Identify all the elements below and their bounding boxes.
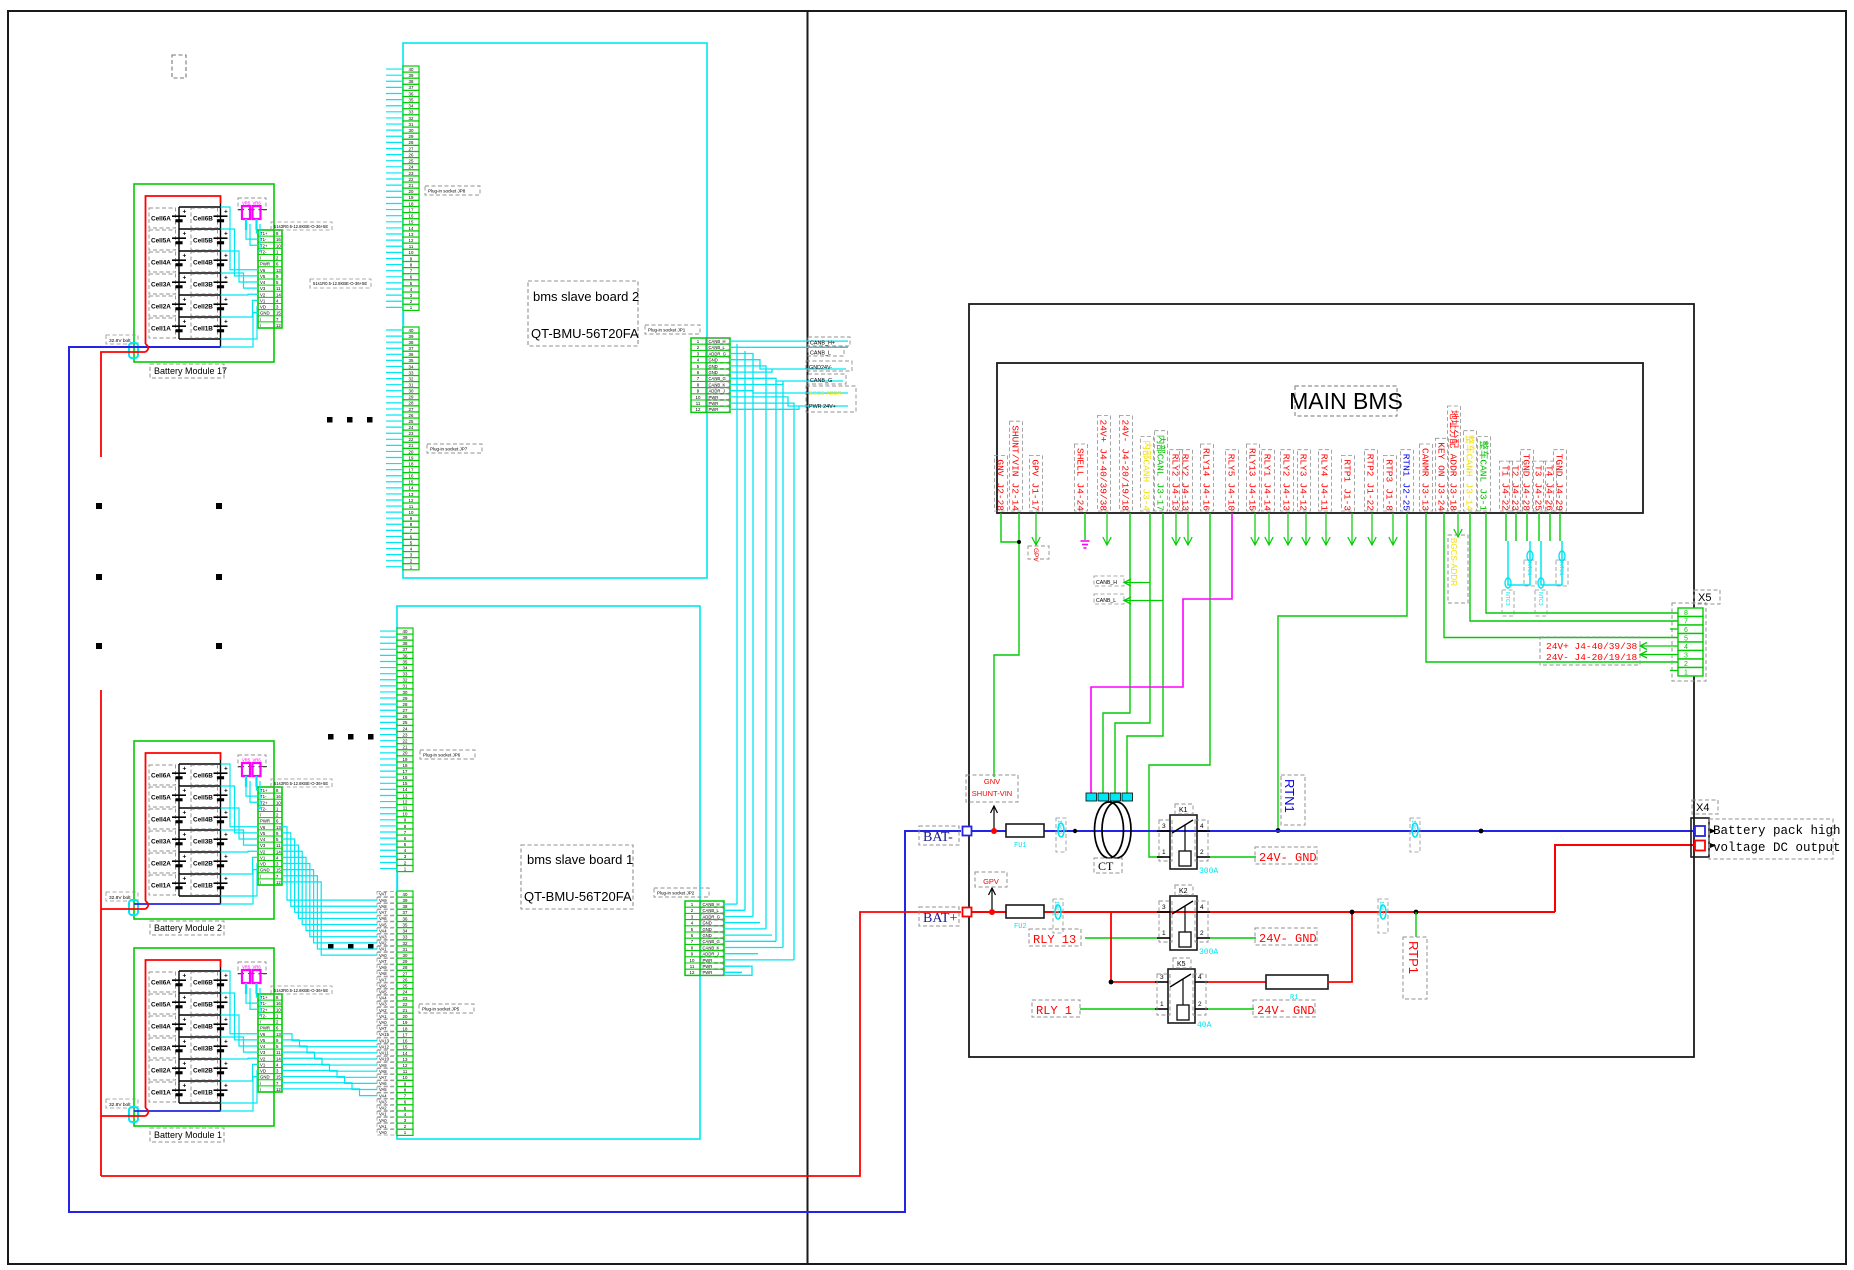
svg-text:TGND: TGND <box>1554 454 1565 477</box>
svg-text:33: 33 <box>403 672 408 677</box>
svg-text:Cell3A: Cell3A <box>151 1046 171 1053</box>
svg-text:VA1: VA1 <box>379 947 387 952</box>
wire K5 pin2 to 24V- GND <box>1208 1008 1254 1010</box>
svg-text:+: + <box>183 209 187 216</box>
ladder rung node Battery Module 2 r2 <box>179 807 221 809</box>
cell Cell5B (Battery Module 2) <box>191 787 218 807</box>
bms slave board 2 outline <box>403 43 707 578</box>
24V- GND label 1 <box>1255 847 1317 864</box>
svg-text:+: + <box>183 832 187 839</box>
svg-text:V6: V6 <box>260 1032 266 1037</box>
svg-text:T1+: T1+ <box>260 788 268 793</box>
wire RLY1 to K5 pin1 <box>1080 1008 1155 1010</box>
wire CANH drop to CT <box>1115 513 1150 793</box>
svg-text:J4-25: J4-25 <box>1533 483 1544 512</box>
svg-text:CANMR: CANMR <box>1420 448 1431 477</box>
svg-text:Plug-in socket JP5: Plug-in socket JP5 <box>422 1007 460 1012</box>
cell Cell4A (Battery Module 1) <box>149 1016 176 1036</box>
svg-text:VA2: VA2 <box>379 1008 387 1013</box>
battery module box Battery Module 17 <box>134 184 274 362</box>
svg-text:+: + <box>224 231 228 238</box>
ladder rung node Battery Module 1 r1 <box>179 992 221 994</box>
bms slave board 1 outline <box>397 606 700 1139</box>
ladder rung node Battery Module 2 r6 <box>179 895 221 897</box>
svg-text:11: 11 <box>276 843 281 848</box>
svg-text:T1+: T1+ <box>260 231 268 236</box>
battery module box Battery Module 2 <box>134 741 274 919</box>
svg-text:11: 11 <box>403 806 408 811</box>
svg-text:VA8: VA8 <box>379 1069 387 1074</box>
svg-text:RLY4: RLY4 <box>1319 454 1330 477</box>
drop arrow x1288 <box>1287 513 1289 545</box>
svg-text:1: 1 <box>1160 1001 1164 1008</box>
cell Cell2B (Battery Module 1) <box>191 1060 218 1080</box>
svg-text:VA5: VA5 <box>379 922 387 927</box>
shell ground symbol <box>1084 513 1086 540</box>
svg-text:CANB_G: CANB_G <box>709 376 726 381</box>
svg-text:PWR: PWR <box>703 970 713 975</box>
svg-text:24: 24 <box>409 165 414 170</box>
ladder rung node Battery Module 2 r0 <box>179 763 221 765</box>
cell Cell4B (Battery Module 17) <box>191 252 218 272</box>
wire red bottom bus to BAT+ <box>101 912 961 1176</box>
svg-text:24V- GND: 24V- GND <box>1259 851 1317 865</box>
svg-text:12: 12 <box>276 1087 281 1092</box>
svg-text:+: + <box>183 973 187 980</box>
svg-text:27: 27 <box>409 146 414 151</box>
svg-text:T2-: T2- <box>260 1013 267 1018</box>
relay K1 coil <box>1179 851 1191 866</box>
arrow X5 pin4 to 24V+ label <box>1640 645 1678 647</box>
svg-text:+: + <box>183 275 187 282</box>
svg-text:24V- J4-20/19/18: 24V- J4-20/19/18 <box>1546 652 1638 663</box>
svg-text:27: 27 <box>403 971 408 976</box>
svg-text:15: 15 <box>409 220 414 225</box>
svg-text:24V- GND: 24V- GND <box>1259 932 1317 946</box>
svg-text:24: 24 <box>403 726 408 731</box>
svg-text:VA6: VA6 <box>379 1081 387 1086</box>
svg-text:2: 2 <box>1200 849 1204 856</box>
svg-text:T2-: T2- <box>260 249 267 254</box>
svg-text:10: 10 <box>696 395 701 400</box>
svg-text:Cell6A: Cell6A <box>151 216 171 223</box>
cyan bus wires board2 connector to labels <box>730 340 848 342</box>
svg-text:T2-: T2- <box>260 806 267 811</box>
X4 connector <box>1691 818 1709 857</box>
svg-text:J3-4: J3-4 <box>1141 488 1152 511</box>
svg-text:V4: V4 <box>260 280 266 285</box>
battery module label (Battery Module 1) <box>150 1128 224 1142</box>
svg-text:16: 16 <box>276 237 281 242</box>
svg-text:VA15: VA15 <box>379 1032 390 1037</box>
svg-text:J4-24: J4-24 <box>1075 483 1086 512</box>
svg-text:14: 14 <box>409 226 414 231</box>
svg-text:CANB_G: CANB_G <box>810 378 832 384</box>
svg-text:CANB_H: CANB_H <box>709 339 726 344</box>
cell Cell6A (Battery Module 2) <box>149 765 176 785</box>
cyan sense wires (Battery Module 1) <box>246 994 258 1003</box>
svg-text:24V-: 24V- <box>1120 420 1131 443</box>
svg-text:Cell4A: Cell4A <box>151 260 171 267</box>
svg-text:V1: V1 <box>260 1062 266 1067</box>
wire BAT+ red main line <box>972 911 1555 913</box>
svg-text:J4-29: J4-29 <box>1554 483 1565 512</box>
svg-text:Cell5B: Cell5B <box>193 238 213 245</box>
wire R1 to red bus <box>1328 912 1352 982</box>
svg-text:CANB_K: CANB_K <box>709 382 726 387</box>
24V label box X5 <box>1540 637 1640 665</box>
svg-text:35: 35 <box>403 659 408 664</box>
svg-text:39: 39 <box>403 898 408 903</box>
svg-text:Cell5A: Cell5A <box>151 795 171 802</box>
svg-text:51s1R0.5-12.8KBE-O-36+5E: 51s1R0.5-12.8KBE-O-36+5E <box>313 281 367 286</box>
X4 pin red <box>1695 841 1705 851</box>
svg-text:16: 16 <box>409 474 414 479</box>
svg-text:32: 32 <box>409 116 414 121</box>
cell ladder buses Battery Module 17 <box>178 207 180 339</box>
svg-text:14: 14 <box>403 787 408 792</box>
RTN1 net label <box>1281 775 1305 825</box>
cell ladder buses Battery Module 1 <box>178 971 180 1103</box>
svg-text:J4-13: J4-13 <box>1281 483 1292 512</box>
svg-text:K1: K1 <box>1179 807 1188 814</box>
svg-text:30: 30 <box>409 389 414 394</box>
module connector 16-pin (Battery Module 1) <box>258 994 282 1092</box>
svg-text:51s3R0.5-12.8KBE-O-36+5E: 51s3R0.5-12.8KBE-O-36+5E <box>274 988 328 993</box>
svg-text:25: 25 <box>409 159 414 164</box>
inline label 10K red line left <box>1053 899 1063 933</box>
svg-text:V5: V5 <box>260 274 266 279</box>
svg-text:37: 37 <box>403 647 408 652</box>
relay K1 <box>1170 815 1197 869</box>
fuse R1 <box>1208 981 1266 983</box>
svg-text:BAT-: BAT- <box>923 830 953 845</box>
ladder rung node Battery Module 1 r2 <box>179 1014 221 1016</box>
svg-text:26: 26 <box>403 714 408 719</box>
svg-text:33: 33 <box>409 370 414 375</box>
cell Cell3A (Battery Module 1) <box>149 1038 176 1058</box>
svg-text:10: 10 <box>409 510 414 515</box>
socket label JP6 <box>420 750 475 759</box>
svg-text:CT: CT <box>1098 859 1114 873</box>
bms slave board 1 label <box>521 845 633 909</box>
svg-text:13: 13 <box>276 1032 281 1037</box>
svg-text:RLY13: RLY13 <box>1247 448 1258 477</box>
thermistor green stubs <box>1505 513 1507 541</box>
svg-text:+: + <box>183 1039 187 1046</box>
svg-text:CANB_H: CANB_H <box>1096 580 1117 586</box>
svg-text:Cell2B: Cell2B <box>193 304 213 311</box>
svg-text:28: 28 <box>409 140 414 145</box>
cell Cell4B (Battery Module 1) <box>191 1016 218 1036</box>
svg-text:+: + <box>183 231 187 238</box>
svg-text:32: 32 <box>403 941 408 946</box>
svg-text:Plug-in socket JP7: Plug-in socket JP7 <box>430 447 468 452</box>
relay K1 pin stubs <box>1157 830 1170 832</box>
voltage label (Battery Module 2) <box>106 892 138 901</box>
cell Cell3B (Battery Module 1) <box>191 1038 218 1058</box>
socket label JP1 <box>645 325 700 334</box>
svg-text:RLY2: RLY2 <box>1180 454 1191 477</box>
net label CANB_G (divider) <box>808 374 846 384</box>
svg-text:+: + <box>224 973 228 980</box>
battery pack output label <box>1709 819 1833 859</box>
svg-text:V1: V1 <box>260 855 266 860</box>
svg-text:30: 30 <box>409 128 414 133</box>
svg-text:25: 25 <box>403 720 408 725</box>
wire GNV drop <box>1001 513 1019 542</box>
svg-text:Cell4A: Cell4A <box>151 817 171 824</box>
relay K2 switch arm <box>1172 901 1193 914</box>
svg-text:RTP3: RTP3 <box>1384 459 1395 482</box>
drop arrow x1393 <box>1392 513 1394 545</box>
svg-text:40: 40 <box>409 67 414 72</box>
cyan wires board1 connector to chain <box>724 903 737 905</box>
svg-text:Cell1B: Cell1B <box>193 326 213 333</box>
svg-text:13: 13 <box>409 492 414 497</box>
svg-text:ADDR_G: ADDR_G <box>703 914 720 919</box>
svg-text:PWR: PWR <box>709 401 719 406</box>
pin header strip JP7 <box>403 327 419 333</box>
svg-text:10: 10 <box>276 1007 281 1012</box>
svg-text:16: 16 <box>403 775 408 780</box>
cyan sense wires (Battery Module 2) <box>246 787 258 796</box>
CT label <box>1094 858 1122 873</box>
svg-text:26: 26 <box>403 977 408 982</box>
relay K2 coil <box>1179 932 1191 947</box>
svg-text:13: 13 <box>403 1057 408 1062</box>
svg-text:J1-8: J1-8 <box>1384 488 1395 511</box>
wire red chain bus lower <box>100 690 102 1176</box>
svg-text:T1-: T1- <box>260 1001 267 1006</box>
svg-text:4: 4 <box>1200 823 1204 830</box>
svg-text:Cell6A: Cell6A <box>151 980 171 987</box>
ladder rung node Battery Module 1 r3 <box>179 1036 221 1038</box>
BAT- terminal square <box>963 827 972 836</box>
svg-text:39: 39 <box>403 635 408 640</box>
module connector 16-pin (Battery Module 2) <box>258 787 282 885</box>
svg-text:VA6: VA6 <box>379 983 387 988</box>
svg-text:+: + <box>224 854 228 861</box>
svg-text:15: 15 <box>403 781 408 786</box>
svg-text:1: 1 <box>1162 930 1166 937</box>
svg-text:+: + <box>183 876 187 883</box>
wire blue module1 out <box>134 1110 221 1112</box>
svg-text:Battery Module 17: Battery Module 17 <box>154 366 227 376</box>
svg-text:PWR: PWR <box>703 964 713 969</box>
svg-text:Cell1A: Cell1A <box>151 326 171 333</box>
svg-text:+: + <box>183 319 187 326</box>
svg-text:GND: GND <box>709 370 718 375</box>
svg-text:32: 32 <box>409 376 414 381</box>
svg-text:+: + <box>224 766 228 773</box>
ellipsis dots row bottom <box>328 944 334 950</box>
GNV SHUNT-VIN label <box>966 775 1018 802</box>
thermistor sense group 1 <box>1508 541 1530 585</box>
svg-text:GPV: GPV <box>983 877 999 886</box>
svg-text:28: 28 <box>403 702 408 707</box>
BAT- label <box>919 826 959 845</box>
svg-text:34: 34 <box>403 665 408 670</box>
svg-text:VR6: VR6 <box>253 965 262 970</box>
board connector JP2 <box>685 901 724 975</box>
svg-text:10: 10 <box>690 958 695 963</box>
inline oval 10K blue right <box>1412 823 1418 837</box>
right panel outer box <box>969 304 1694 1057</box>
svg-text:Plug-in socket JP8: Plug-in socket JP8 <box>428 189 466 194</box>
svg-text:VD: VD <box>260 862 266 867</box>
svg-text:36: 36 <box>403 653 408 658</box>
part number label (Battery Module 17) <box>271 222 332 230</box>
drop arrow x1306 <box>1305 513 1307 545</box>
relay K1 switch arm <box>1172 820 1193 833</box>
svg-text:Cell2B: Cell2B <box>193 861 213 868</box>
RLY 13 label <box>1029 929 1081 946</box>
svg-text:VA0: VA0 <box>379 1020 387 1025</box>
svg-text:GNV: GNV <box>995 459 1006 476</box>
svg-text:+: + <box>183 253 187 260</box>
svg-text:VR5: VR5 <box>242 201 251 206</box>
ladder rung node Battery Module 1 r6 <box>179 1102 221 1104</box>
svg-text:RTP1: RTP1 <box>1406 941 1421 974</box>
svg-text:31: 31 <box>409 383 414 388</box>
svg-text:VA1: VA1 <box>379 1124 387 1129</box>
svg-text:RLY2: RLY2 <box>1281 454 1292 477</box>
svg-text:VAT: VAT <box>379 1026 387 1031</box>
battery module label (Battery Module 17) <box>150 364 224 378</box>
svg-text:J4-11: J4-11 <box>1319 483 1330 512</box>
svg-text:J3-1: J3-1 <box>1478 488 1489 511</box>
cell Cell2B (Battery Module 2) <box>191 853 218 873</box>
svg-text:VR5: VR5 <box>242 758 251 763</box>
svg-text:VA8: VA8 <box>379 904 387 909</box>
svg-text:23: 23 <box>409 431 414 436</box>
ellipsis dots vertical pairs <box>96 503 102 509</box>
cell Cell3B (Battery Module 17) <box>191 274 218 294</box>
svg-text:PWR: PWR <box>260 1026 270 1031</box>
svg-text:16: 16 <box>409 214 414 219</box>
svg-text:V3: V3 <box>260 843 266 848</box>
svg-text:NTC1: NTC1 <box>1526 562 1532 576</box>
svg-text:VA2: VA2 <box>379 1106 387 1111</box>
cell Cell5A (Battery Module 2) <box>149 787 176 807</box>
svg-text:18: 18 <box>409 461 414 466</box>
svg-text:VA4: VA4 <box>379 1093 387 1098</box>
wire red branch to K5 <box>1111 912 1157 982</box>
svg-text:33: 33 <box>403 935 408 940</box>
wire blue module2 out <box>134 903 221 905</box>
net label PWR 24V+ (divider) <box>806 386 856 412</box>
svg-text:35: 35 <box>403 922 408 927</box>
svg-text:38: 38 <box>409 79 414 84</box>
svg-text:3: 3 <box>1162 904 1166 911</box>
svg-text:21: 21 <box>409 443 414 448</box>
svg-text:Cell5A: Cell5A <box>151 1002 171 1009</box>
svg-text:Battery Module 1: Battery Module 1 <box>154 1130 222 1140</box>
svg-text:22: 22 <box>409 437 414 442</box>
inline label 10K blue right <box>1410 818 1420 852</box>
svg-text:+: + <box>224 832 228 839</box>
relay K1 designator <box>1175 804 1193 814</box>
cell Cell2A (Battery Module 17) <box>149 296 176 316</box>
cell Cell5B (Battery Module 17) <box>191 230 218 250</box>
svg-text:1: 1 <box>1684 670 1688 677</box>
svg-text:J3-18: J3-18 <box>1448 483 1459 512</box>
cell Cell1B (Battery Module 17) <box>191 318 218 338</box>
svg-text:4: 4 <box>1198 974 1202 981</box>
svg-text:23: 23 <box>409 171 414 176</box>
svg-text:VA0: VA0 <box>379 1118 387 1123</box>
svg-text:J4-20/19/18: J4-20/19/18 <box>1120 448 1131 511</box>
svg-text:PWR: PWR <box>260 262 270 267</box>
wire BAT+ riser to X4 <box>1555 845 1695 912</box>
svg-text:38: 38 <box>403 641 408 646</box>
cell Cell6A (Battery Module 17) <box>149 208 176 228</box>
cell Cell3A (Battery Module 17) <box>149 274 176 294</box>
svg-text:32.8V bolt: 32.8V bolt <box>109 1102 131 1108</box>
svg-text:J4-28: J4-28 <box>1521 483 1532 512</box>
wire CANH(vehicle) to X5 pin7 <box>1470 513 1678 621</box>
svg-text:V6: V6 <box>260 268 266 273</box>
svg-text:J3-17: J3-17 <box>1155 483 1166 512</box>
svg-text:V5: V5 <box>260 1038 266 1043</box>
wire red module1 hook <box>146 1108 149 1116</box>
wire BAT- blue main line <box>972 830 1695 832</box>
wire RLY5 magenta drop to CT <box>1091 513 1232 793</box>
svg-text:VR6: VR6 <box>253 758 262 763</box>
svg-text:整车CANL: 整车CANL <box>1478 440 1490 482</box>
svg-text:20: 20 <box>409 449 414 454</box>
svg-text:CANB_G: CANB_G <box>703 939 720 944</box>
svg-text:24V+: 24V+ <box>1098 420 1109 443</box>
svg-text:V2: V2 <box>260 292 266 297</box>
svg-text:Cell1A: Cell1A <box>151 883 171 890</box>
svg-text:GND: GND <box>703 921 712 926</box>
svg-text:J4-15: J4-15 <box>1247 483 1258 512</box>
svg-text:PWR: PWR <box>703 958 713 963</box>
svg-text:10: 10 <box>409 250 414 255</box>
svg-text:29: 29 <box>403 696 408 701</box>
battery module label (Battery Module 2) <box>150 921 224 935</box>
svg-text:GPV: GPV <box>1032 548 1039 562</box>
drop arrow GPV <box>1035 513 1037 545</box>
part number label 2 (Battery Module 17) <box>310 279 371 288</box>
svg-text:J1-22: J1-22 <box>1365 483 1376 512</box>
svg-text:RTP1: RTP1 <box>1342 459 1353 482</box>
relay K5 designator <box>1173 958 1191 968</box>
svg-text:10: 10 <box>403 1075 408 1080</box>
svg-text:14: 14 <box>276 1056 281 1061</box>
svg-text:12: 12 <box>409 498 414 503</box>
BAT+ terminal square <box>963 908 972 917</box>
wire RTP1 tap <box>1414 910 1419 915</box>
svg-text:Battery pack high: Battery pack high <box>1713 824 1841 838</box>
svg-text:T2+: T2+ <box>260 243 268 248</box>
cell Cell5A (Battery Module 1) <box>149 994 176 1014</box>
svg-text:20: 20 <box>409 189 414 194</box>
svg-text:K5: K5 <box>1177 961 1186 968</box>
board connector JP1 <box>691 338 730 412</box>
svg-text:14: 14 <box>276 292 281 297</box>
svg-text:voltage DC output: voltage DC output <box>1713 841 1841 855</box>
wire red positive feed Battery Module 17 <box>146 196 221 344</box>
svg-text:Cell1B: Cell1B <box>193 883 213 890</box>
svg-text:VA13: VA13 <box>379 1038 390 1043</box>
cell Cell5B (Battery Module 1) <box>191 994 218 1014</box>
svg-text:T1: T1 <box>1500 465 1511 477</box>
svg-text:16: 16 <box>276 794 281 799</box>
X5 stub pins <box>1670 628 1678 630</box>
